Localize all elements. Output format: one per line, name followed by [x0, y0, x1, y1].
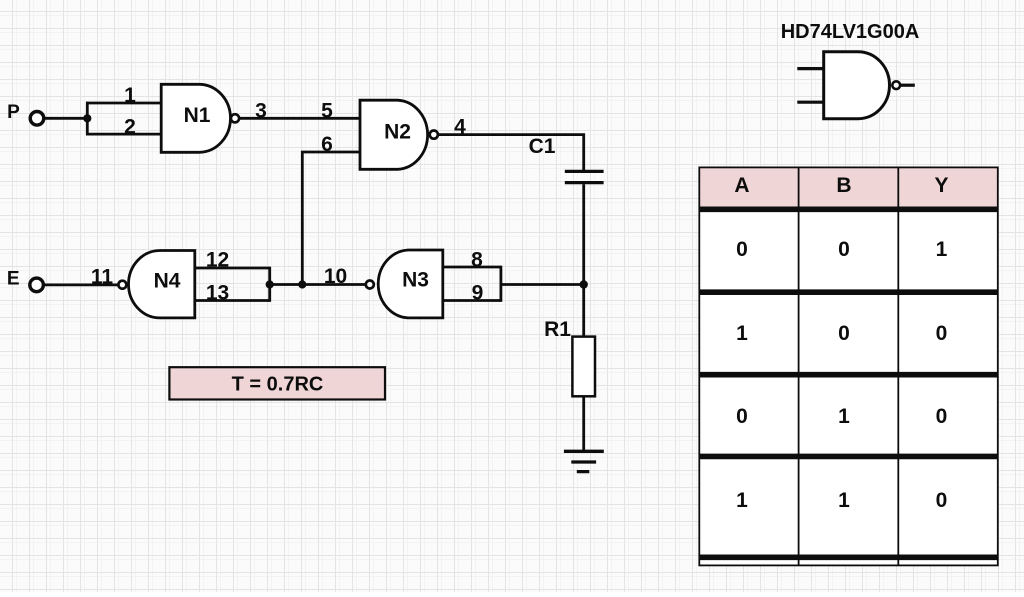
NAND gate N3 body (left-facing) [378, 250, 443, 318]
svg-text:6: 6 [321, 133, 333, 156]
wire pin 12 of N4 [195, 267, 270, 270]
svg-text:1: 1 [838, 405, 850, 428]
formula box T = 0.7RC [169, 367, 385, 399]
svg-text:0: 0 [838, 238, 850, 261]
svg-text:Y: Y [934, 174, 948, 197]
svg-text:10: 10 [324, 265, 347, 288]
input bubble of N3 (pin 10) [366, 281, 374, 289]
svg-text:9: 9 [472, 281, 484, 304]
truth table thick separator under header [699, 207, 998, 213]
truth table thick separator row2/row3 [699, 372, 998, 378]
svg-text:5: 5 [321, 99, 333, 122]
reference gate input stub B [797, 101, 823, 104]
junction dot at C1/R1 node [580, 280, 588, 288]
svg-text:2: 2 [124, 115, 136, 138]
svg-text:T = 0.7RC: T = 0.7RC [232, 373, 324, 395]
wire pin 1 of N1 [86, 102, 161, 105]
ground symbol [564, 451, 604, 471]
truth table thick separator at bottom [699, 554, 998, 560]
svg-text:13: 13 [206, 282, 229, 305]
svg-text:0: 0 [838, 322, 850, 345]
truth table header fill [699, 167, 998, 206]
NAND gate N4 body (left-facing) [129, 251, 195, 318]
wire vertical joining pins 12 and 13 [268, 267, 271, 302]
reference gate output bubble [892, 81, 900, 89]
svg-text:C1: C1 [529, 135, 556, 158]
truth table thick separator row1/row2 [699, 289, 998, 295]
wire branch vertical at junction [86, 102, 89, 136]
svg-text:A: A [734, 174, 749, 197]
truth table background [699, 167, 998, 565]
reference NAND gate HD74LV1G00A body [824, 52, 890, 119]
wire P to junction [44, 117, 88, 120]
svg-text:11: 11 [91, 265, 114, 288]
svg-text:N2: N2 [384, 120, 411, 143]
svg-text:N1: N1 [184, 104, 211, 127]
junction dot at N4 output node [266, 280, 274, 288]
svg-text:0: 0 [736, 405, 748, 428]
svg-text:1: 1 [736, 489, 748, 512]
svg-text:1: 1 [838, 489, 850, 512]
svg-text:0: 0 [936, 405, 948, 428]
svg-text:HD74LV1G00A: HD74LV1G00A [781, 21, 920, 43]
svg-text:1: 1 [736, 322, 748, 345]
svg-text:P: P [7, 102, 20, 123]
truth table column line 2 [897, 167, 899, 565]
output bubble of N1 [231, 114, 239, 122]
wire C1 to node [582, 184, 585, 284]
svg-text:8: 8 [471, 248, 483, 271]
wire pin 2 of N1 [86, 133, 161, 136]
wire E to N4 pin 11 [43, 283, 118, 286]
wire R1 to ground [582, 396, 585, 451]
wire N3 output to node [501, 283, 584, 286]
svg-text:4: 4 [454, 116, 466, 139]
reference gate output stub [900, 84, 915, 87]
svg-text:B: B [836, 174, 851, 197]
input terminal E (open circle) [30, 278, 44, 292]
svg-text:3: 3 [255, 99, 267, 122]
wire node to resistor R1 [582, 285, 585, 337]
svg-text:E: E [7, 268, 20, 289]
svg-text:0: 0 [936, 489, 948, 512]
svg-text:N4: N4 [154, 270, 181, 293]
wire pin 6 of N2 from node [302, 152, 360, 285]
resistor R1 body [572, 337, 595, 397]
svg-text:1: 1 [124, 84, 136, 107]
wire node 3/5 from N1 to N2 [239, 117, 360, 120]
svg-text:R1: R1 [544, 318, 571, 341]
NAND gate N1 body [161, 84, 230, 152]
capacitor C1 plates [565, 171, 604, 182]
input bubble of N4 (pin 11) [118, 281, 126, 289]
wire node 4 from N2 to capacitor C1 [438, 135, 584, 171]
svg-text:N3: N3 [402, 268, 429, 291]
reference gate input stub A [797, 67, 823, 70]
input terminal P (open circle) [30, 112, 44, 126]
svg-text:1: 1 [936, 238, 948, 261]
wire node 10 segment [270, 283, 366, 286]
junction dot at node 10 branch to pin 6 [298, 280, 306, 288]
wire pin 13 of N4 [195, 299, 270, 302]
output bubble of N2 [430, 131, 438, 139]
NAND gate N2 body [360, 100, 428, 169]
junction dot at P branch [83, 114, 91, 122]
svg-text:0: 0 [936, 322, 948, 345]
truth table column line 1 [798, 167, 800, 565]
svg-text:0: 0 [736, 238, 748, 261]
truth table thick separator row3/row4 [699, 454, 998, 460]
wire pin 9 of N3 [443, 299, 501, 302]
svg-text:12: 12 [206, 249, 229, 272]
truth table outer border [699, 167, 998, 565]
wire vertical joining pins 8 and 9 [499, 266, 502, 302]
wire pin 8 of N3 [443, 266, 501, 269]
